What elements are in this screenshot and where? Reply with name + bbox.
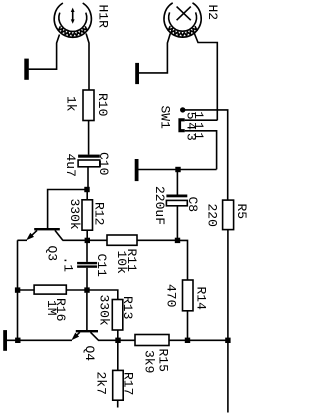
svg-text:R17: R17 (121, 372, 136, 395)
resistor R10 (83, 90, 94, 121)
svg-text:SW1: SW1 (158, 106, 173, 130)
svg-text:C8: C8 (185, 197, 200, 213)
terminal bar mid left (135, 159, 139, 181)
node left rail R16 junction (15, 287, 20, 292)
node C10/R12/Q3 junction (84, 187, 89, 192)
wire H1R right leg (86, 34, 89, 91)
switch SW1 common dot pin 5 (180, 107, 185, 112)
svg-text:R15: R15 (156, 349, 171, 372)
wire C10 to node (87, 167, 89, 188)
wire C8 bottom (176, 206, 178, 238)
wire SW1 pin 3 line (185, 131, 217, 170)
resistor R5 (223, 200, 234, 230)
wire R14 bottom (187, 311, 189, 339)
svg-text:220: 220 (205, 204, 220, 227)
capacitor C8 (166, 195, 187, 206)
resistor R12 (82, 200, 93, 230)
wire left rail to R16 (18, 289, 35, 291)
svg-text:1: 1 (191, 122, 206, 130)
wire left rail down (17, 240, 19, 340)
wire SW1 pin 4 line (185, 119, 218, 121)
svg-text:1: 1 (191, 132, 206, 140)
svg-text:3k9: 3k9 (142, 350, 157, 373)
ground bar bottom left (3, 330, 7, 351)
svg-text:R14: R14 (194, 287, 209, 311)
node C8 top junction (175, 167, 180, 172)
wire R12 to rail (86, 230, 88, 239)
node R12/Q3/R11/C11 junction (85, 238, 90, 243)
wire C11 bottom (86, 268, 88, 288)
svg-text:1M: 1M (44, 300, 59, 316)
earpiece H1R (54, 3, 91, 37)
svg-text:Q4: Q4 (82, 346, 97, 362)
switch SW1 bracket (178, 118, 184, 132)
node C11/R16/Q4 junction (84, 287, 89, 292)
wire R17 top (117, 342, 119, 370)
wire C8 top (176, 172, 178, 195)
node R13/R17/R15 junction (115, 338, 120, 343)
svg-text:C10: C10 (96, 152, 111, 175)
wire R15 to right rail (169, 339, 228, 341)
svg-text:1k: 1k (63, 96, 78, 112)
transistor Q3 (26, 228, 63, 240)
wire node to Q3 base (48, 190, 85, 229)
resistor R13 (112, 300, 123, 331)
svg-text:R10: R10 (95, 93, 110, 116)
node R11/C8/R14 junction (175, 238, 180, 243)
transistor Q4 (71, 330, 98, 340)
node right rail junction (225, 338, 230, 343)
wire Q4 base (86, 293, 88, 330)
wire C11 top (86, 243, 88, 262)
node left rail ground junction (15, 338, 20, 343)
earpiece H2 (164, 3, 201, 37)
resistor R17 (113, 370, 124, 400)
svg-text:2k7: 2k7 (94, 372, 109, 395)
wire Q3 collector to node (63, 239, 86, 241)
resistor R11 (107, 235, 137, 245)
svg-text:R13: R13 (120, 296, 135, 319)
wire node to R12 (86, 191, 88, 200)
wire R11 to node (137, 239, 175, 241)
wire R10 to C10 (88, 121, 90, 155)
capacitor C10 (78, 155, 100, 167)
wire mid rail (139, 169, 217, 171)
svg-text:R12: R12 (92, 202, 107, 225)
wire SW1 pin 5 line (185, 110, 228, 200)
svg-text:10k: 10k (114, 251, 129, 275)
resistor R16 (34, 285, 66, 294)
svg-text:1: 1 (191, 111, 206, 119)
svg-text:H1R: H1R (95, 5, 110, 29)
wire node to R13 corner (90, 290, 118, 300)
svg-text:4u7: 4u7 (63, 154, 78, 177)
node R14 bottom junction (185, 338, 190, 343)
terminal bar below H2 (135, 63, 139, 84)
wire Q3 emitter to left rail (17, 239, 27, 241)
svg-text:H2: H2 (205, 5, 220, 21)
wire R13 to rail (117, 330, 119, 339)
wire H2 left leg (139, 34, 171, 73)
resistor R15 (135, 335, 169, 346)
svg-text:220uF: 220uF (152, 186, 167, 225)
wire node to R11 (90, 239, 107, 241)
wire R5 bottom to rail and below (227, 230, 229, 413)
wire R16 to node (66, 289, 84, 291)
capacitor C11 (77, 262, 97, 268)
svg-text:330k: 330k (97, 295, 112, 326)
wire Q4 collector to node (98, 339, 135, 341)
resistor R14 (183, 280, 194, 311)
svg-text:330k: 330k (67, 199, 82, 230)
wire H2 right leg (194, 34, 217, 121)
wire ground rail (7, 339, 72, 341)
svg-text:R5: R5 (234, 204, 249, 220)
svg-text:Q3: Q3 (45, 246, 60, 262)
svg-text:470: 470 (164, 284, 179, 307)
svg-text:.1: .1 (61, 257, 76, 273)
wire R17 bottom stub (117, 400, 119, 407)
terminal bar left of H1R (24, 59, 29, 80)
wire H1R left leg (29, 35, 60, 70)
svg-text:C11: C11 (94, 254, 109, 278)
wire node to R14 corner (180, 240, 188, 280)
